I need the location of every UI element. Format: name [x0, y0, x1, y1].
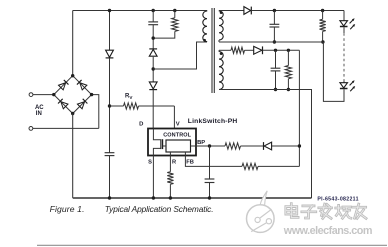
svg-text:IN: IN [36, 111, 42, 117]
wire LED string return [323, 42, 344, 101]
transformer T1 primary winding [203, 11, 207, 42]
wire V pin [173, 106, 175, 129]
wire D8 to bias sense [272, 145, 300, 147]
wire dash to LED2 [343, 80, 345, 82]
wire bridge- down [72, 114, 74, 199]
svg-text:V: V [176, 122, 180, 128]
node drain junction [152, 67, 155, 70]
node C4 return [274, 88, 277, 91]
wire R7 to bias sense [258, 165, 299, 167]
resistor R1 (clamp) [172, 18, 178, 32]
transformer T1 bias winding [219, 52, 223, 90]
transistor Q1 (internal MOSFET) [153, 129, 160, 140]
bridge diode bottom-right [77, 99, 87, 109]
wire bias sense drop [298, 50, 300, 166]
node bridge bottom [71, 112, 74, 115]
svg-text:R: R [172, 160, 176, 166]
svg-text:Typical Application Schematic.: Typical Application Schematic. [105, 204, 214, 214]
wire clamp R bottom [153, 31, 175, 38]
wire bridge+ to rail [72, 11, 74, 76]
wire C5 to ground [209, 183, 211, 199]
wire clamp C stub [152, 11, 154, 22]
wire bias top lead [219, 49, 231, 51]
U1 CONTROL block [166, 140, 191, 152]
wire LED1 to dash [343, 27, 345, 33]
wire bias rail [263, 49, 300, 51]
wire AC N riser [92, 95, 99, 129]
transformer T1 primary polarity dot [203, 39, 206, 42]
bridge BR1 frame [54, 76, 92, 114]
node RV tap [108, 104, 111, 107]
node rail-clampC [152, 9, 155, 12]
resistor R6 (BP feed) [225, 143, 241, 149]
resistor RV (line sense) [110, 105, 124, 107]
separator rule [37, 244, 387, 246]
wire LED string dashed [343, 33, 345, 80]
wire AC N [33, 127, 99, 129]
node bias cap top [274, 49, 277, 52]
wire top rail [73, 10, 207, 12]
LED D6 arrows [350, 81, 354, 85]
diode D3 (drain series, cathode down) [149, 82, 157, 89]
diode D8 (BP feed, cathode left) [264, 142, 272, 150]
svg-text:www.elecfans.com: www.elecfans.com [283, 225, 372, 237]
wire C4 bottom [275, 71, 277, 90]
wire bottom rail (primary ground) [73, 197, 312, 199]
wire C3 stub [273, 11, 275, 25]
node load R top [321, 9, 324, 12]
resistor R7 (FB) [242, 163, 258, 169]
AC terminal L [29, 93, 33, 97]
wire secondary top [219, 10, 244, 12]
wire R pin [169, 152, 171, 172]
LED D6 [340, 83, 348, 88]
AC terminal N [29, 126, 33, 130]
resistor R2 (preload) [322, 11, 324, 20]
node rail-bus [108, 9, 111, 12]
wire clamp-drain link [152, 57, 154, 82]
node bias R top [287, 49, 290, 52]
svg-text:D: D [139, 122, 143, 128]
node bias R return [287, 88, 290, 91]
wire S pin to ground [152, 156, 154, 199]
wire R5 to ground [169, 184, 171, 198]
node bridge top [71, 74, 74, 77]
svg-text:BP: BP [197, 140, 205, 146]
wire FB pin [185, 152, 242, 166]
capacitor C5 (BP) [205, 178, 215, 180]
wire D pin [152, 90, 154, 129]
wire LED string drop [343, 11, 345, 21]
transformer T1 core [211, 8, 213, 93]
bridge diode top-left [59, 80, 69, 90]
wire output rail [251, 10, 344, 12]
node bridge left [52, 93, 55, 96]
wire BP pin [191, 145, 226, 147]
diode D1 (series bus diode) [106, 50, 114, 57]
svg-text:AC: AC [35, 105, 44, 111]
node bias sense / BP [298, 144, 301, 147]
node S ground [152, 196, 155, 199]
transformer T1 bias polarity dot [220, 52, 223, 55]
resistor R5 (R pin) [167, 172, 173, 185]
wire bias return rail [219, 90, 312, 199]
bridge diode bottom-left [58, 99, 68, 109]
svg-text:CONTROL: CONTROL [163, 132, 191, 138]
transformer T1 secondary winding [219, 11, 223, 40]
wire C4 stub [275, 50, 277, 68]
node C5 ground [208, 196, 211, 199]
wire C1 to ground [109, 156, 111, 198]
wire AC L [33, 94, 54, 96]
node R5 ground [169, 196, 172, 199]
wire R6 to D8 [241, 145, 264, 147]
wire bus branch upper [109, 11, 111, 51]
bridge diode top-right [77, 80, 87, 90]
wire bus mid [109, 58, 111, 153]
diode D4 (output rectifier) [244, 7, 251, 15]
wire R3 to D7 [245, 49, 254, 51]
op-amp U1 LinkSwitch-PH body [148, 129, 196, 156]
wire output return rail [219, 41, 323, 43]
node rail-clampR [173, 9, 176, 12]
node clamp junction [152, 36, 155, 39]
node BP [208, 144, 211, 147]
diode D2 (clamp, cathode up) [149, 50, 157, 57]
capacitor C1 (input filter) [105, 152, 115, 154]
node C1 ground [108, 196, 111, 199]
wire drain to primary [153, 42, 207, 69]
capacitor C3 (output) [270, 23, 280, 25]
node load R return [321, 40, 324, 43]
svg-text:PI-6543-082211: PI-6543-082211 [317, 196, 358, 202]
resistor R4 (bias bleed) [287, 50, 289, 65]
svg-text:FB: FB [186, 160, 194, 166]
svg-text:S: S [148, 160, 152, 166]
LED D5 [340, 21, 348, 26]
transformer T1 secondary polarity dot [220, 11, 223, 14]
node bridge right [90, 93, 93, 96]
wire clamp C lower [152, 25, 154, 49]
resistor R3 (bias series) [231, 47, 245, 53]
node output cap top [273, 9, 276, 12]
node C3 return [273, 40, 276, 43]
capacitor C2 (clamp) [148, 21, 158, 23]
capacitor C4 (bias) [271, 67, 281, 69]
LED D5 arrows [350, 19, 354, 23]
watermark logo and text (decorative) [260, 191, 267, 206]
svg-text:Figure 1.: Figure 1. [50, 204, 85, 214]
svg-text:LinkSwitch-PH: LinkSwitch-PH [188, 118, 238, 125]
wire BP cap stub [209, 146, 211, 179]
wire C3 bottom [273, 27, 275, 42]
diode D7 (bias rectifier) [254, 46, 262, 54]
wire clamp R stub [174, 11, 176, 18]
